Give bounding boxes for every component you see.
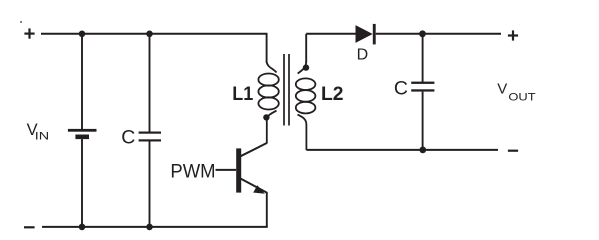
svg-text:OUT: OUT — [508, 91, 536, 103]
wire secondary bottom rail — [306, 149, 498, 151]
svg-text:D: D — [357, 47, 369, 64]
transformer core — [284, 54, 289, 126]
wire collector diagonal — [241, 143, 267, 156]
capacitor C input plates — [139, 132, 161, 142]
inductor L2 winding — [296, 62, 316, 151]
wire battery branch lower — [81, 139, 83, 227]
wire output cap lower — [422, 92, 424, 150]
transistor Q1 base bar — [236, 148, 241, 192]
label VIN — [27, 121, 50, 143]
terminal - (input) — [24, 226, 35, 228]
transistor Q1 emitter with arrow — [241, 179, 267, 194]
label VOUT — [497, 81, 536, 104]
svg-text:L2: L2 — [321, 83, 344, 105]
node phasing dot L2 — [303, 64, 309, 70]
wire emitter to bottom rail — [266, 192, 268, 227]
inductor L1 winding — [258, 62, 278, 144]
battery VIN plates — [68, 129, 97, 139]
node junction dot bottom cap — [146, 224, 153, 231]
wire output cap upper — [422, 34, 424, 82]
svg-text:C: C — [121, 127, 135, 149]
wire secondary top rail (cathode side) — [376, 33, 501, 35]
node phasing dot L1 — [263, 114, 269, 120]
wire base lead — [216, 169, 237, 171]
wire secondary top rail (anode side) — [306, 33, 356, 35]
node junction dot top battery — [79, 31, 86, 38]
wire L1 top lead — [266, 34, 268, 63]
node junction dot top cap — [146, 31, 153, 38]
terminal - (output) — [508, 150, 518, 152]
capacitor C output plates — [411, 82, 434, 92]
wire battery branch upper — [81, 34, 83, 130]
wire top rail primary — [41, 33, 268, 35]
svg-text:IN: IN — [35, 131, 49, 143]
node junction dot bottom battery — [79, 224, 86, 231]
diode D — [356, 24, 376, 45]
wire L2 top lead — [305, 34, 307, 63]
stray speck — [20, 21, 22, 23]
wire bottom rail primary — [42, 226, 268, 228]
wire input cap branch upper — [149, 34, 151, 132]
terminal + (output) — [508, 30, 518, 40]
terminal + (input) — [24, 28, 34, 38]
node junction dot output bottom — [419, 147, 426, 154]
svg-text:L1: L1 — [232, 83, 253, 105]
svg-text:C: C — [394, 77, 408, 99]
wire input cap branch lower — [149, 142, 151, 228]
svg-text:V: V — [497, 81, 507, 98]
svg-text:PWM: PWM — [170, 160, 215, 182]
node junction dot output top — [419, 30, 426, 37]
